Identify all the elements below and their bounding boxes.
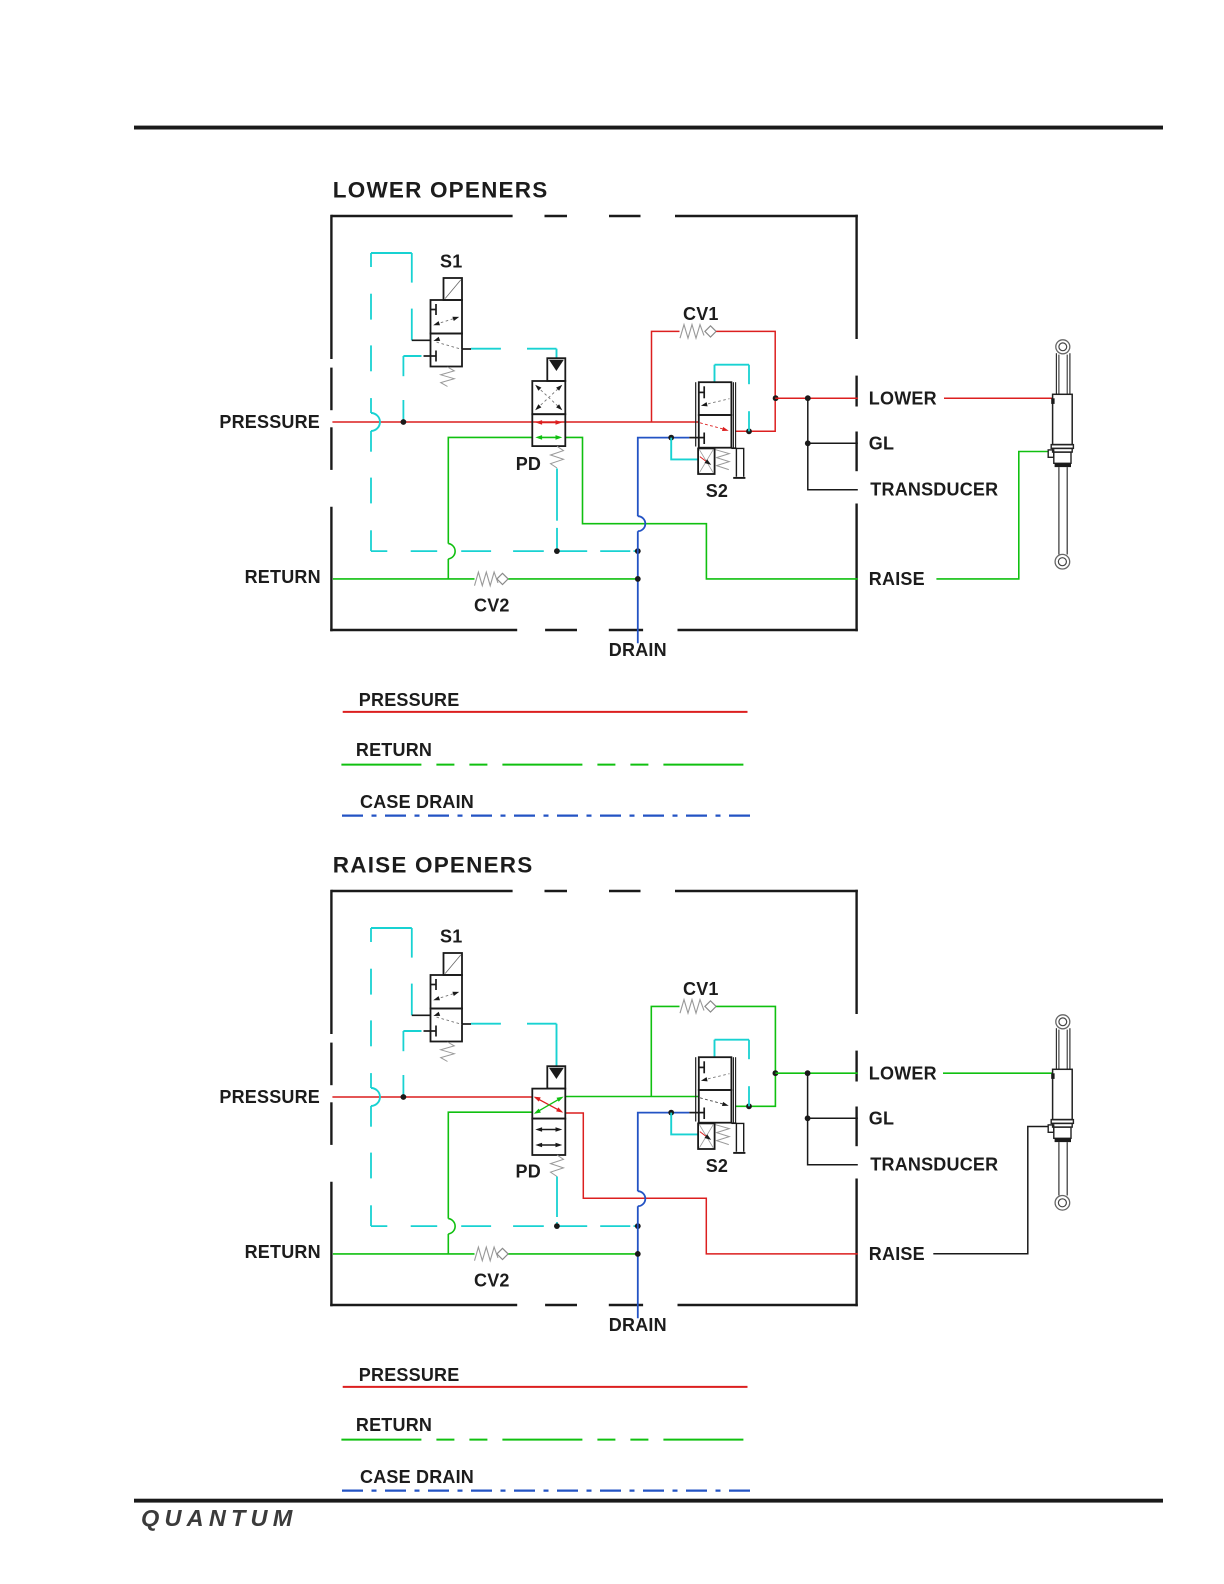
junction dot PD drain on pilot-drain line: [554, 548, 560, 554]
S2 blocked port (bottom-left): [703, 433, 705, 445]
wire S1 pilot loop (cyan dashed): S1 A-port up/left/down: [371, 252, 412, 254]
svg-text:GL: GL: [869, 434, 894, 454]
legend 1 return sample line (green dashed): [341, 764, 747, 766]
cylinder (raise) - bottom eye: [1055, 1196, 1070, 1211]
PD crossed pressure arrow (red): [535, 1097, 562, 1111]
solenoid valve S1 (lower) - solenoid box: [444, 278, 463, 300]
PD pilot triangle: [549, 360, 564, 371]
S1 left port lead: [412, 1014, 431, 1016]
svg-text:GL: GL: [869, 1109, 894, 1129]
S2 blocked port (bottom-left): [703, 1108, 705, 1120]
PD bias spring: [551, 446, 564, 468]
wire S1 pilot loop (cyan dashed) continued to drain junction: [370, 431, 372, 452]
S2 solenoid arrow: [700, 457, 708, 463]
junction dot pilot-drain line on case-drain line: [635, 548, 641, 554]
S1 position-1 flow arrow: [436, 318, 457, 325]
junction dot case-drain 2 to S2 pilot branch: [668, 1110, 674, 1116]
cylinder (raise) - gland block: [1054, 1127, 1071, 1138]
proportional valve S2 (raise) - left rail: [695, 1057, 697, 1121]
svg-text:DRAIN: DRAIN: [609, 1315, 667, 1335]
pilot valve PD (raise) - straight position box: [532, 1119, 565, 1155]
pilot valve PD (raise) - pilot actuator box: [547, 1066, 565, 1088]
S1 right port lead: [462, 348, 471, 350]
wire RAISE to cylinder port (green): [936, 452, 1048, 579]
solenoid valve S1 (raise) - position 2 box: [431, 1009, 463, 1042]
svg-text:TRANSDUCER: TRANSDUCER: [870, 480, 998, 500]
cylinder (lower) - lower rod: [1058, 467, 1060, 554]
check valve CV2 - spring: [475, 572, 499, 586]
svg-text:CASE DRAIN: CASE DRAIN: [360, 1467, 474, 1487]
junction dot S1 P-port on pressure line: [401, 419, 407, 425]
wire S1 P-port 2 to pressure (cyan dashed): [403, 1030, 421, 1032]
junction dot S2 pilot on work-port line: [746, 428, 752, 434]
dashed boundary box (raise openers) - top edge: [331, 890, 512, 892]
svg-text:LOWER: LOWER: [869, 388, 937, 408]
svg-text:RETURN: RETURN: [356, 1415, 432, 1435]
pilot valve PD (lower) - crossed position box: [532, 381, 565, 414]
svg-text:CV1: CV1: [683, 979, 719, 999]
wire S1 pilot loop 2 (cyan dashed): [371, 927, 412, 929]
wire case drain line (blue) lower part: [637, 531, 639, 643]
check valve CV1 (raise) - spring: [680, 1000, 704, 1014]
cylinder (raise) - side port block: [1048, 1125, 1054, 1132]
wire case drain 2 lower part: [637, 1206, 639, 1318]
hop of case drain over green line: [638, 516, 646, 531]
svg-text:RAISE: RAISE: [869, 569, 925, 589]
hop of cyan loop over pressure line: [371, 413, 380, 431]
dashed boundary box (lower openers) - bottom edge: [330, 629, 517, 631]
PD crossed-position arrows: [537, 387, 561, 409]
junction dot CV1/work/LOWER node 2: [773, 1070, 779, 1076]
wire PD spring drain 2 (cyan dashed): [556, 1177, 558, 1218]
svg-text:LOWER OPENERS: LOWER OPENERS: [333, 178, 549, 203]
cylinder (lower) - gland bands: [1051, 445, 1073, 449]
check valve CV2 (raise) - poppet diamond: [497, 1248, 508, 1259]
S2 position-2 flow arrow: [700, 1098, 726, 1105]
wire transducer branch (black): [808, 398, 858, 490]
S1 blocked port (bottom-left): [424, 1030, 437, 1032]
cylinder (lower) - barrel: [1053, 394, 1073, 444]
wire CV1 bypass 2 (green): [651, 1006, 679, 1096]
svg-text:RAISE OPENERS: RAISE OPENERS: [333, 853, 534, 878]
svg-text:DRAIN: DRAIN: [609, 640, 667, 660]
junction dot GL branch 2: [805, 1115, 811, 1121]
hop of case drain 2 over red line: [638, 1191, 646, 1206]
junction dot S1 P-port 2: [401, 1094, 407, 1100]
wire PD to RETURN (green): left branch with hop over cyan: [448, 437, 532, 543]
wire case drain line (blue): S2 T-port to drain: [638, 438, 690, 517]
PD return path arrow (green): [538, 436, 560, 438]
wire S2 pilot sense 2 (cyan dashed): [714, 1040, 716, 1057]
wire S1 to PD pilot (cyan dashed): [471, 348, 501, 350]
svg-text:CV1: CV1: [683, 304, 719, 324]
wire CV1 output (red) down to S2 work port: [716, 331, 775, 431]
S2 position-1 flow arrow: [703, 1074, 730, 1080]
wire S2 solenoid pilot 2 (cyan): [671, 1113, 698, 1135]
svg-text:LOWER: LOWER: [869, 1063, 937, 1083]
svg-text:RETURN: RETURN: [245, 1242, 321, 1262]
cylinder (raise) - upper rod: [1055, 1028, 1057, 1069]
S1 left port lead: [412, 339, 431, 341]
S1 position-2 flow arrow: [433, 337, 440, 341]
S1 blocked port (top-left): [431, 309, 437, 311]
svg-text:RETURN: RETURN: [356, 740, 432, 760]
legend 2 case drain sample line (blue dash-dot): [342, 1489, 752, 1491]
svg-text:S2: S2: [706, 1156, 728, 1176]
wire S1 P-port to pressure line (cyan dashed): [403, 355, 421, 357]
cylinder (lower) - seal band: [1055, 463, 1071, 467]
S1 right port lead: [462, 1023, 471, 1025]
S1 position-2 flow arrow: [433, 1012, 440, 1016]
cylinder (lower) - upper rod: [1055, 353, 1057, 394]
wire LOWER line (red) to cylinder: [944, 397, 1053, 399]
wire case drain 2 (blue): [638, 1113, 690, 1192]
svg-text:QUANTUM: QUANTUM: [141, 1505, 298, 1531]
svg-text:PRESSURE: PRESSURE: [219, 1087, 320, 1107]
wire CV1 output 2 (green) down to S2 work port: [716, 1006, 775, 1106]
svg-text:PD: PD: [516, 1161, 541, 1181]
wire S2 solenoid pilot (cyan): [671, 438, 698, 460]
junction dot GL branch: [805, 440, 811, 446]
svg-text:S1: S1: [440, 252, 462, 272]
S2 solenoid arrow: [700, 1132, 708, 1138]
dashed boundary box (raise openers) - left edge: [330, 890, 332, 1034]
solenoid valve S1 (raise) - solenoid box: [444, 953, 463, 975]
svg-text:TRANSDUCER: TRANSDUCER: [870, 1155, 998, 1175]
proportional valve S2 (raise) - right rails: [732, 1057, 734, 1123]
cylinder (lower) - port notch: [1051, 398, 1054, 404]
svg-text:CASE DRAIN: CASE DRAIN: [360, 792, 474, 812]
svg-text:PRESSURE: PRESSURE: [359, 1365, 460, 1385]
cylinder (raise) - barrel: [1053, 1069, 1073, 1119]
junction dot transducer branch 2: [805, 1070, 811, 1076]
wire S1 to PD pilot 2 (cyan dashed): [471, 1023, 501, 1025]
wire RETURN line left of CV2 (green): [333, 578, 475, 580]
svg-text:RAISE: RAISE: [869, 1244, 925, 1264]
legend 2 pressure sample line (red): [343, 1386, 748, 1388]
cylinder (lower) - gland block: [1054, 452, 1071, 463]
svg-text:RETURN: RETURN: [245, 567, 321, 587]
proportional valve S2 (raise) - position 2 box: [699, 1090, 732, 1123]
check valve CV1 - poppet diamond: [705, 326, 716, 337]
solenoid valve S1 (lower) - position 1 box: [431, 300, 463, 334]
junction dot PD drain 2: [554, 1223, 560, 1229]
junction dot pilot-drain 2 on case drain: [635, 1223, 641, 1229]
solenoid valve S1 (lower) - position 2 box: [431, 334, 463, 367]
hop of cyan loop 2 over pressure line: [371, 1088, 380, 1106]
wire PRESSURE line (red): [332, 421, 698, 423]
proportional valve S2 (lower) - position 2 box: [699, 415, 732, 448]
solenoid valve S1 (raise) - position 1 box: [431, 975, 463, 1009]
page bottom rule: [134, 1499, 1163, 1503]
check valve CV2 - poppet diamond: [497, 573, 508, 584]
S2 spring: [716, 1125, 730, 1145]
proportional valve S2 (raise) - position 1 box: [699, 1057, 732, 1090]
cylinder (raise) - seal band: [1055, 1138, 1071, 1142]
wire transducer branch 2 (black): [808, 1073, 858, 1165]
S1 blocked port (top-left): [431, 984, 437, 986]
svg-text:S1: S1: [440, 927, 462, 947]
legend 1 pressure sample line (red): [343, 711, 748, 713]
wire PD work port 2 to RAISE (red): [565, 1113, 858, 1254]
proportional valve S2 (lower) - position 1 box: [699, 382, 732, 415]
svg-text:PD: PD: [516, 454, 541, 474]
wire PD work port to RAISE (green): [565, 437, 858, 579]
S2 blocked port (top-left): [699, 1066, 704, 1068]
wire PD spring drain (cyan dashed): [556, 469, 558, 521]
cylinder (lower) - bottom eye: [1055, 554, 1070, 569]
PD straight arrows (black): [538, 1129, 560, 1131]
junction dot CV1/work/LOWER node: [773, 395, 779, 401]
hydraulic cylinder (lower) - top eye: [1056, 340, 1070, 354]
wire pressure-to-S2 line 2 (green) from PD through CV1 node: [565, 1096, 699, 1098]
proportional valve S2 (lower) - left rail: [695, 382, 697, 446]
junction dot RETURN on case drain: [635, 576, 641, 582]
S2 position-1 flow arrow: [703, 399, 730, 405]
dashed boundary box (lower openers) - left edge: [330, 215, 332, 359]
S2 proportional solenoid box: [698, 448, 715, 474]
cylinder (raise) - gland bands: [1051, 1120, 1073, 1124]
legend 2 return sample line (green dashed): [341, 1439, 747, 1441]
wire RAISE 2 to cylinder port (black): [933, 1127, 1048, 1254]
PD crossed return arrow (green): [536, 1097, 563, 1112]
wire S2 pilot sense (cyan dashed): [714, 365, 716, 382]
S1 position-1 flow arrow: [436, 993, 457, 1000]
wire RETURN line 2 right of CV2 (green): [507, 1253, 638, 1255]
check valve CV2 (raise) - spring: [475, 1247, 499, 1261]
svg-text:CV2: CV2: [474, 596, 510, 616]
wire PD to RETURN 2 (green) with hop: [448, 1112, 532, 1218]
junction dot RETURN 2 on case drain: [635, 1251, 641, 1257]
wire S1 pilot loop 2 continued: [370, 1106, 372, 1127]
S1 blocked port (bottom-left): [424, 355, 437, 357]
S2 detent pedestal: [731, 1122, 736, 1124]
S2 proportional solenoid box: [698, 1123, 715, 1149]
dashed boundary box (raise openers) - right edge: [855, 890, 857, 1014]
page top rule: [134, 126, 1163, 130]
cylinder (raise) - lower rod: [1058, 1142, 1060, 1195]
wire PRESSURE line 2 (red): [332, 1096, 532, 1098]
S2 spring: [716, 450, 730, 470]
PD bias spring: [551, 1155, 564, 1177]
dashed boundary box (lower openers) - top edge: [331, 215, 512, 217]
cylinder (lower) - side port block: [1048, 450, 1054, 457]
check valve CV1 (raise) - poppet diamond: [705, 1001, 716, 1012]
junction dot S2 pilot 2 on work-port line: [746, 1103, 752, 1109]
check valve CV1 - spring: [680, 325, 704, 339]
wire RETURN line 2 left of CV2 (green): [333, 1253, 475, 1255]
cylinder (raise) - port notch: [1051, 1073, 1054, 1079]
legend 1 case drain sample line (blue dash-dot): [342, 814, 752, 816]
PD pilot triangle: [549, 1068, 564, 1079]
svg-text:PRESSURE: PRESSURE: [359, 690, 460, 710]
wire LOWER line 2 (green) to cylinder: [943, 1072, 1053, 1074]
S1 return spring: [441, 1042, 455, 1062]
wire LOWER line (red) inside box: [775, 397, 858, 399]
S2 position-2 flow arrow: [700, 423, 726, 430]
junction dot case-drain to S2 pilot branch: [668, 435, 674, 441]
PD pressure path arrow (red): [538, 421, 560, 423]
S2 detent pedestal: [731, 447, 736, 449]
hydraulic cylinder (raise) - top eye: [1056, 1015, 1070, 1029]
pilot valve PD (raise) - crossed position box (active): [532, 1089, 565, 1119]
pilot valve PD (lower) - pilot actuator box: [547, 358, 565, 381]
dashed boundary box (raise openers) - bottom edge: [330, 1304, 517, 1306]
svg-text:CV2: CV2: [474, 1271, 510, 1291]
S2 blocked port (top-left): [699, 391, 704, 393]
dashed boundary box (lower openers) - right edge: [855, 215, 857, 339]
proportional valve S2 (lower) - right rails: [732, 382, 734, 448]
junction dot transducer branch on LOWER line: [805, 395, 811, 401]
pilot valve PD (lower) - straight position box: [532, 414, 565, 446]
svg-text:PRESSURE: PRESSURE: [219, 412, 320, 432]
S1 return spring: [441, 367, 455, 387]
wire RETURN line right of CV2 (green): [507, 578, 638, 580]
svg-text:S2: S2: [706, 481, 728, 501]
wire LOWER line 2 (green) inside box: [775, 1072, 857, 1074]
wire CV1 bypass (red): pressure line up and over: [652, 331, 680, 422]
